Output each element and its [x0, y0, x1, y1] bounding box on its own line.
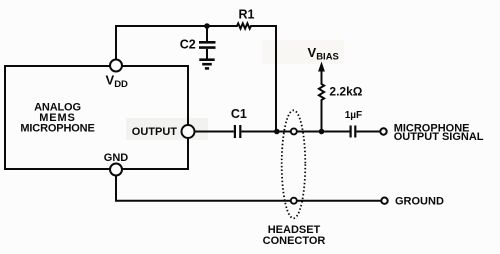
svg-text:GND: GND: [104, 152, 129, 164]
svg-text:BIAS: BIAS: [316, 51, 339, 62]
svg-text:OUTPUT: OUTPUT: [132, 126, 178, 138]
svg-text:MICROPHONE: MICROPHONE: [20, 123, 94, 135]
svg-text:GROUND: GROUND: [395, 195, 444, 207]
svg-text:R1: R1: [239, 8, 255, 22]
svg-text:DD: DD: [114, 79, 128, 90]
svg-text:2.2kΩ: 2.2kΩ: [329, 85, 362, 99]
svg-text:1µF: 1µF: [345, 110, 362, 121]
svg-text:C2: C2: [180, 38, 196, 52]
svg-text:CONECTOR: CONECTOR: [263, 235, 326, 247]
svg-text:V: V: [106, 73, 115, 88]
svg-text:OUTPUT SIGNAL: OUTPUT SIGNAL: [394, 131, 484, 143]
svg-text:C1: C1: [231, 107, 247, 121]
svg-text:V: V: [308, 45, 317, 60]
